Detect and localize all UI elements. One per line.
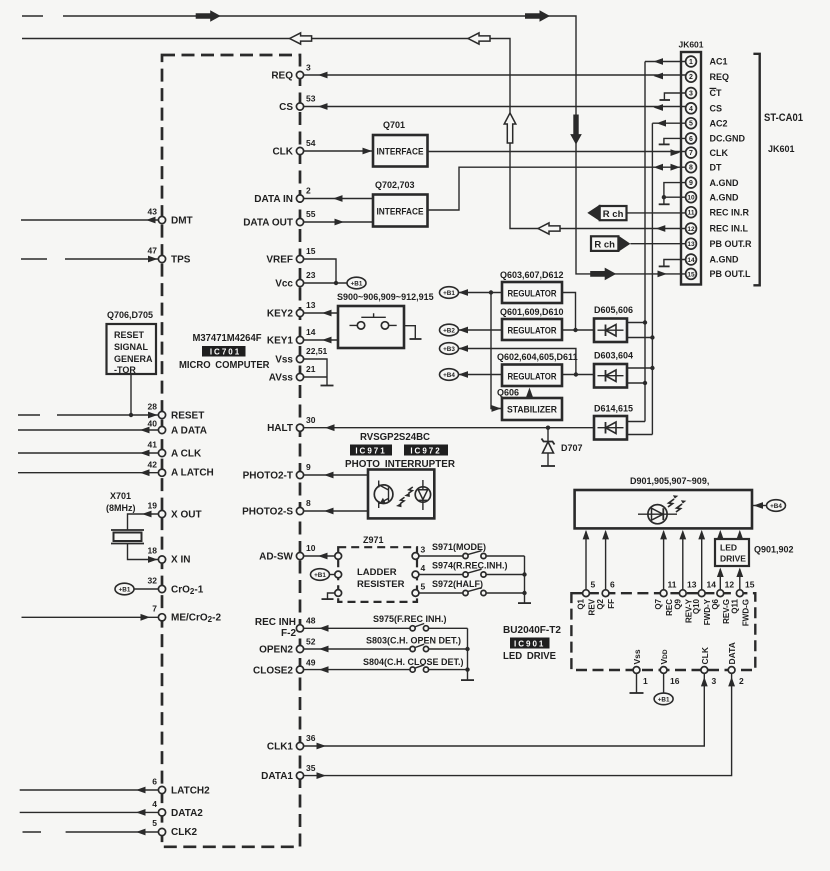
svg-text:CLK: CLK <box>710 148 729 158</box>
svg-text:DATA2: DATA2 <box>171 808 203 819</box>
svg-text:D901,905,907~909,: D901,905,907~909, <box>630 476 709 486</box>
svg-text:RVSGP2S24BC: RVSGP2S24BC <box>360 431 430 443</box>
reset generator Q706,D705 box <box>107 310 157 375</box>
wire top bus line 2 (from REC IN.L) <box>22 39 686 229</box>
wire DATA OUT pin 55 into interface Q702,703 <box>304 219 373 226</box>
svg-text:PB OUT.R: PB OUT.R <box>710 239 753 249</box>
svg-text:IC972: IC972 <box>410 446 441 455</box>
svg-text:DT: DT <box>710 162 722 172</box>
op-amp U1 micro computer IC701 dashed outline <box>162 55 300 847</box>
svg-text:S975(F.REC INH.): S975(F.REC INH.) <box>373 614 447 624</box>
ground at IC901 Vss <box>630 673 644 693</box>
svg-text:CS: CS <box>710 104 723 114</box>
svg-text:3: 3 <box>689 91 693 98</box>
bus wire to JK601 pin 1 <box>644 62 646 422</box>
svg-text:VREF: VREF <box>266 255 293 266</box>
dual diode D605,606 <box>594 305 633 342</box>
svg-text:32: 32 <box>148 576 158 586</box>
svg-text:KEY2: KEY2 <box>267 309 294 320</box>
svg-text:+B1: +B1 <box>314 572 326 579</box>
wire LATCH2 pin 6 <box>20 787 159 794</box>
svg-text:FWD-G: FWD-G <box>741 599 750 626</box>
svg-text:5: 5 <box>689 121 693 128</box>
svg-text:19: 19 <box>148 501 158 511</box>
wire DATA IN pin 2 from interface Q702,703 <box>304 195 373 202</box>
signal-flow arrow on PB OUT.L segment <box>590 268 616 281</box>
svg-text:REGULATOR: REGULATOR <box>508 372 557 383</box>
svg-text:+B1: +B1 <box>351 280 363 287</box>
svg-text:INTERFACE: INTERFACE <box>377 207 424 218</box>
svg-text:S971(MODE): S971(MODE) <box>432 542 486 552</box>
wire AD-SW pin 10 <box>304 553 335 560</box>
svg-text:49: 49 <box>306 658 316 668</box>
crystal X701 (8MHz) <box>106 491 158 563</box>
IC901 bottom pin rotated names <box>632 642 737 664</box>
svg-text:36: 36 <box>306 733 316 743</box>
svg-text:Q2: Q2 <box>596 598 605 609</box>
svg-text:5: 5 <box>421 582 426 592</box>
IC701 right-edge pin terminals <box>296 71 303 779</box>
svg-text:LED DRIVE: LED DRIVE <box>503 650 556 662</box>
svg-text:14: 14 <box>687 257 695 264</box>
hollow arrow on line 2 (right) <box>468 33 490 44</box>
svg-text:PB OUT.L: PB OUT.L <box>710 269 752 279</box>
wire ME/CrO2-2 pin 7 <box>22 614 159 621</box>
svg-text:CLOSE2: CLOSE2 <box>253 666 293 677</box>
svg-text:DRIVE: DRIVE <box>720 554 746 564</box>
svg-text:Q9: Q9 <box>673 598 682 609</box>
dual diode D614,615 <box>594 404 633 440</box>
svg-text:Vss: Vss <box>275 355 293 366</box>
wire diode D603 outputs to bus <box>627 366 655 385</box>
svg-text:FF: FF <box>607 599 616 609</box>
svg-text:R ch: R ch <box>603 209 624 220</box>
svg-text:2: 2 <box>306 186 311 196</box>
svg-text:IC701: IC701 <box>210 348 241 357</box>
svg-text:35: 35 <box>306 763 316 773</box>
svg-text:X IN: X IN <box>171 555 190 566</box>
svg-text:Q603,607,D612: Q603,607,D612 <box>500 270 564 280</box>
switch S974(R.REC.INH.) <box>419 561 527 578</box>
svg-text:IC971: IC971 <box>355 446 386 455</box>
svg-text:Q606: Q606 <box>497 388 519 398</box>
wire RESET pin 28 <box>18 412 158 419</box>
svg-text:9: 9 <box>689 180 693 187</box>
svg-text:Vcc: Vcc <box>275 279 293 290</box>
svg-text:INTERFACE: INTERFACE <box>377 147 424 158</box>
svg-text:55: 55 <box>306 209 316 219</box>
svg-text:+B3: +B3 <box>443 346 455 353</box>
power +B3 tap from regulator Q602 output <box>440 343 579 377</box>
svg-text:PHOTO2-S: PHOTO2-S <box>242 507 293 518</box>
IC701 function label <box>179 359 270 371</box>
regulator Q602,604,605,D611 <box>497 352 578 386</box>
wire DATA1 pin 35 to IC901 DATA <box>304 673 735 779</box>
svg-text:REC INH: REC INH <box>255 617 296 628</box>
connector JK601 numbered pins <box>686 56 697 279</box>
svg-text:RESET: RESET <box>114 330 145 340</box>
svg-text:REC IN.L: REC IN.L <box>710 224 749 234</box>
svg-text:+B4: +B4 <box>443 372 455 379</box>
wire stabilizer to regulator Q602 <box>526 388 533 399</box>
hollow arrow on line 2 (left) <box>290 33 312 44</box>
svg-text:GENERA: GENERA <box>114 354 153 364</box>
power +B1 from regulator Q603 <box>440 287 503 299</box>
photo interrupter IC971/IC972 labels <box>345 431 455 470</box>
wire A CLK pin 41 <box>18 450 158 457</box>
svg-text:11: 11 <box>688 210 695 217</box>
svg-text:Q706,D705: Q706,D705 <box>107 310 153 320</box>
dual diode D603,604 <box>594 351 633 388</box>
svg-text:CLK2: CLK2 <box>171 827 198 838</box>
svg-text:+B1: +B1 <box>443 290 455 297</box>
power +B1 at IC901 VDD <box>654 673 673 704</box>
svg-text:STABILIZER: STABILIZER <box>507 405 557 416</box>
wire regulator Q603 output to diode D605 input <box>562 293 594 333</box>
svg-text:LED: LED <box>720 543 737 553</box>
svg-text:AC2: AC2 <box>710 118 728 128</box>
svg-text:REQ: REQ <box>710 72 730 82</box>
IC701 designator tag <box>202 346 246 357</box>
wire +B1 branch to stabilizer <box>489 290 502 412</box>
svg-text:A DATA: A DATA <box>171 426 207 437</box>
wire interface Q702,703 to JK601 pin 8 (DT) <box>428 164 686 210</box>
svg-text:13: 13 <box>687 241 695 248</box>
svg-text:IC901: IC901 <box>514 639 545 648</box>
svg-text:48: 48 <box>306 616 316 626</box>
bracket for ST-CA01 <box>753 54 803 285</box>
svg-text:14: 14 <box>707 580 717 590</box>
bus wire to JK601 pin 5 <box>651 123 653 434</box>
svg-text:Q701: Q701 <box>383 120 405 130</box>
power +B1 at ladder resister <box>311 569 335 581</box>
svg-text:LATCH2: LATCH2 <box>171 786 210 797</box>
svg-text:Q6: Q6 <box>711 598 720 609</box>
svg-text:21: 21 <box>306 364 316 374</box>
svg-text:R ch: R ch <box>594 240 615 251</box>
ladder resister Z971 dashed box <box>335 535 417 602</box>
svg-text:TPS: TPS <box>171 255 191 266</box>
svg-text:CLK1: CLK1 <box>267 742 294 753</box>
power +B4 into LED array <box>752 500 786 512</box>
svg-text:S803(C.H. OPEN DET.): S803(C.H. OPEN DET.) <box>366 636 461 646</box>
svg-text:MICRO COMPUTER: MICRO COMPUTER <box>179 359 270 371</box>
stub at JK601 pin 14 (A.GND) <box>659 260 686 267</box>
svg-text:23: 23 <box>306 270 316 280</box>
svg-text:A.GND: A.GND <box>710 192 740 202</box>
key switch block S900~906,909~912,915 <box>337 292 434 348</box>
svg-text:D614,615: D614,615 <box>594 404 633 414</box>
svg-text:D603,604: D603,604 <box>594 351 633 361</box>
svg-text:M37471M4264F: M37471M4264F <box>193 332 263 344</box>
svg-text:JK601: JK601 <box>678 40 703 50</box>
svg-text:S974(R.REC.INH.): S974(R.REC.INH.) <box>432 561 508 571</box>
svg-text:A CLK: A CLK <box>171 449 202 460</box>
wire A LATCH pin 42 <box>18 469 158 476</box>
svg-text:3: 3 <box>712 676 717 686</box>
svg-text:12: 12 <box>725 580 735 590</box>
svg-text:DMT: DMT <box>171 216 193 227</box>
svg-text:Q7: Q7 <box>654 598 663 609</box>
svg-text:+B2: +B2 <box>443 327 455 334</box>
power +B4 from regulator Q602 <box>440 369 503 381</box>
svg-text:F-2: F-2 <box>281 628 296 639</box>
svg-text:9: 9 <box>306 462 311 472</box>
svg-text:Q602,604,605,D611: Q602,604,605,D611 <box>497 352 578 362</box>
svg-text:6: 6 <box>152 777 157 787</box>
svg-text:2: 2 <box>739 676 744 686</box>
power +B2 from regulator Q601 <box>440 324 503 336</box>
svg-text:SIGNAL: SIGNAL <box>114 342 149 352</box>
svg-text:A.GND: A.GND <box>710 178 740 188</box>
wire DATA2 pin 4 <box>20 809 159 816</box>
svg-text:ME/CrO2-2: ME/CrO2-2 <box>171 613 221 625</box>
svg-text:RESET: RESET <box>171 411 204 422</box>
svg-text:S972(HALF): S972(HALF) <box>432 579 483 589</box>
wires IC901 outputs to LED array <box>583 530 706 590</box>
svg-text:BU2040F-T2: BU2040F-T2 <box>503 624 561 636</box>
wires LED drive outputs to LED array <box>717 530 743 540</box>
regulator Q601,609,D610 <box>500 307 564 340</box>
svg-text:53: 53 <box>306 94 316 104</box>
switch S972(HALF) <box>419 579 527 596</box>
svg-text:X OUT: X OUT <box>171 510 202 521</box>
svg-text:OPEN2: OPEN2 <box>259 645 293 656</box>
wire top bus line 1 (to PB OUT.L) <box>22 16 686 274</box>
LED drive Q901,902 box <box>715 539 794 566</box>
wire diode D614 outputs to bus <box>627 422 652 435</box>
IC701 part number label <box>193 332 263 344</box>
svg-text:13: 13 <box>306 300 316 310</box>
IC901 bottom pin terminals <box>633 667 744 686</box>
svg-text:CS: CS <box>279 102 293 113</box>
svg-text:(8MHz): (8MHz) <box>106 503 136 513</box>
wire VREF pin 15 to Vcc node <box>304 259 339 285</box>
svg-text:REGULATOR: REGULATOR <box>508 289 557 300</box>
svg-text:12: 12 <box>687 226 695 233</box>
interface Q702,703 box <box>373 180 428 227</box>
svg-text:5: 5 <box>591 580 596 590</box>
arrowhead into micro from JK601 pin 12 <box>656 225 666 232</box>
connector JK601 signal names <box>710 57 753 279</box>
wire interface Q701 to JK601 pin 7 <box>428 149 686 156</box>
switch S971(MODE) <box>419 542 525 559</box>
wire REQ pin 3 to JK601 pin 2 <box>304 72 686 80</box>
ground at mode switches <box>518 556 531 603</box>
svg-text:A LATCH: A LATCH <box>171 468 214 479</box>
LED array D901,905,907~909 box <box>575 476 752 528</box>
svg-text:REGULATOR: REGULATOR <box>508 326 557 337</box>
svg-text:S900~906,909~912,915: S900~906,909~912,915 <box>337 292 434 302</box>
svg-text:3: 3 <box>306 63 311 73</box>
svg-text:4: 4 <box>421 563 426 573</box>
svg-text:16: 16 <box>670 676 680 686</box>
wire A DATA pin 40 <box>18 427 158 434</box>
svg-text:22,51: 22,51 <box>306 346 328 356</box>
wire regulator Q602 output to diode D603 input <box>562 374 594 376</box>
svg-text:CrO2-1: CrO2-1 <box>171 585 204 597</box>
svg-text:-TOR: -TOR <box>114 365 136 375</box>
wires IC901 outputs to LED drive <box>717 568 743 590</box>
wire PHOTO2-T pin 9 <box>304 472 368 479</box>
hollow arrow up on line 2 vertical <box>504 113 516 143</box>
wire TPS pin 47 <box>21 256 158 263</box>
svg-text:X701: X701 <box>110 491 131 501</box>
ground at Vss/AVss pins <box>304 359 334 386</box>
svg-text:Q901,902: Q901,902 <box>754 545 794 555</box>
svg-text:DATA OUT: DATA OUT <box>243 218 293 229</box>
power +B1 at CrO2-1 pin 32 <box>115 583 158 595</box>
wire CLK pin 54 into interface Q701 <box>304 148 373 155</box>
svg-text:18: 18 <box>148 546 158 556</box>
svg-text:4: 4 <box>152 799 157 809</box>
ground at key switch block <box>404 326 422 339</box>
signal-flow arrow on line 1 (left) <box>196 10 221 22</box>
svg-text:KEY1: KEY1 <box>267 336 294 347</box>
svg-text:1: 1 <box>689 59 693 66</box>
svg-text:7: 7 <box>689 150 693 157</box>
svg-text:15: 15 <box>687 271 695 278</box>
LED symbol inside D901 box <box>638 495 686 524</box>
svg-text:41: 41 <box>148 440 158 450</box>
wire JK601 pins 9-10 (A.GND) with ground <box>659 183 686 205</box>
svg-text:PHOTO2-T: PHOTO2-T <box>243 471 293 482</box>
IC901 top pin terminals <box>583 580 755 597</box>
IC901 dashed outline <box>571 593 755 670</box>
svg-text:LADDER: LADDER <box>357 567 397 578</box>
regulator Q603,607,D612 <box>500 270 564 303</box>
left-edge pin labels and numbers of IC701 <box>148 207 222 839</box>
stabilizer Q606 <box>497 388 562 421</box>
interface Q701 box <box>373 120 428 167</box>
svg-text:DATA: DATA <box>727 642 737 664</box>
svg-text:+B4: +B4 <box>770 503 782 510</box>
power +B1 at Vcc pin 23 <box>304 277 366 289</box>
svg-text:CLK: CLK <box>272 147 293 158</box>
ground at ladder resister <box>322 593 335 599</box>
svg-text:6: 6 <box>689 136 693 143</box>
IC701 left-edge pin terminals <box>158 216 165 835</box>
svg-text:52: 52 <box>306 637 316 647</box>
wire PHOTO2-S pin 8 <box>304 508 368 515</box>
stub at JK601 pin 3 (CT) <box>660 93 686 100</box>
ladder terminals 3,4,5 <box>412 545 425 597</box>
svg-text:11: 11 <box>668 580 677 590</box>
svg-text:JK601: JK601 <box>768 144 795 154</box>
wire reset generator to RESET node <box>129 374 133 417</box>
svg-text:D605,606: D605,606 <box>594 305 633 315</box>
svg-text:42: 42 <box>148 460 158 470</box>
wire KEY1 pin 14 <box>304 337 338 344</box>
svg-text:DC.GND: DC.GND <box>710 134 746 144</box>
svg-text:HALT: HALT <box>267 423 293 434</box>
photo interrupter IC971 body <box>368 470 434 519</box>
wire KEY2 pin 13 <box>304 310 338 317</box>
wire CS pin 53 to JK601 pin 4 <box>304 103 686 111</box>
svg-text:15: 15 <box>306 246 316 256</box>
svg-text:DATA IN: DATA IN <box>254 194 293 205</box>
R ch flag into REC IN.R (JK601 pin 11) <box>587 204 685 221</box>
LED driver IC901 labels <box>503 624 561 662</box>
svg-text:CT: CT <box>710 88 722 98</box>
switch S804(C.H. CLOSE DET.) on CLOSE2 pin 49 <box>304 657 470 673</box>
svg-text:13: 13 <box>687 580 697 590</box>
signal-flow arrow down on line 1 vertical <box>570 115 582 145</box>
svg-text:+B1: +B1 <box>658 696 670 703</box>
svg-text:REC IN.R: REC IN.R <box>710 207 750 217</box>
svg-text:S804(C.H. CLOSE DET.): S804(C.H. CLOSE DET.) <box>363 657 464 667</box>
ground at detector switches <box>461 628 474 680</box>
svg-text:47: 47 <box>148 246 158 256</box>
svg-text:15: 15 <box>745 580 755 590</box>
svg-text:Q10: Q10 <box>692 598 701 614</box>
IC901 top pin rotated names <box>577 598 751 626</box>
svg-text:28: 28 <box>148 402 158 412</box>
svg-text:6: 6 <box>610 580 615 590</box>
svg-text:CLK: CLK <box>700 646 710 664</box>
zener diode D707 <box>541 428 583 466</box>
wire DMT pin 43 <box>21 217 158 224</box>
svg-text:10: 10 <box>306 543 316 553</box>
wire diode D605 outputs to bus <box>627 320 655 339</box>
hollow arrow on REC IN.L segment <box>538 223 560 234</box>
switch S975(F.REC INH.) on REC INH F-2 pin 48 <box>304 614 468 632</box>
svg-text:Q702,703: Q702,703 <box>375 180 415 190</box>
svg-text:ST-CA01: ST-CA01 <box>764 112 803 124</box>
wire CLK2 pin 5 <box>23 829 159 836</box>
svg-text:Q11: Q11 <box>730 598 739 613</box>
wire bus to JK601 pin 5 (AC2) <box>652 120 685 127</box>
wire HALT pin 30 <box>304 424 594 431</box>
switch S803(C.H. OPEN DET.) on OPEN2 pin 52 <box>304 636 470 653</box>
svg-text:D707: D707 <box>561 443 583 453</box>
svg-text:43: 43 <box>148 207 158 217</box>
stub at JK601 pin 6 (DC.GND) <box>659 138 686 144</box>
arrowhead into JK601 pin 15 <box>658 271 668 278</box>
svg-text:DATA1: DATA1 <box>261 771 293 782</box>
svg-text:AVss: AVss <box>269 373 294 384</box>
R ch flag out of PB OUT.R (JK601 pin 13) <box>591 236 685 252</box>
svg-text:14: 14 <box>306 327 316 337</box>
wire bus to JK601 pin 1 (AC1) <box>645 58 685 65</box>
svg-text:1: 1 <box>643 676 648 686</box>
svg-text:Z971: Z971 <box>363 535 384 545</box>
svg-text:54: 54 <box>306 138 316 148</box>
right-edge pin labels and numbers of IC701 <box>242 63 327 783</box>
svg-text:REQ: REQ <box>271 71 293 82</box>
svg-text:5: 5 <box>152 818 157 828</box>
svg-text:8: 8 <box>306 498 311 508</box>
svg-text:4: 4 <box>689 106 693 113</box>
svg-text:3: 3 <box>421 545 426 555</box>
svg-text:Q601,609,D610: Q601,609,D610 <box>500 307 564 317</box>
svg-text:7: 7 <box>152 604 157 614</box>
svg-text:30: 30 <box>306 415 316 425</box>
svg-text:Vss: Vss <box>632 649 642 664</box>
connector JK601 body <box>678 40 703 285</box>
svg-text:+B1: +B1 <box>119 586 131 593</box>
svg-text:AC1: AC1 <box>710 57 728 67</box>
svg-text:AD-SW: AD-SW <box>259 552 293 563</box>
signal-flow arrow on line 1 (right) <box>525 10 550 22</box>
svg-text:10: 10 <box>687 195 695 202</box>
wire CLK1 pin 36 to IC901 CLK <box>304 673 708 749</box>
svg-text:Q1: Q1 <box>577 598 586 609</box>
svg-text:8: 8 <box>689 165 693 172</box>
svg-text:A.GND: A.GND <box>710 255 740 265</box>
svg-text:2: 2 <box>689 74 693 81</box>
svg-text:RESISTER: RESISTER <box>357 579 405 590</box>
